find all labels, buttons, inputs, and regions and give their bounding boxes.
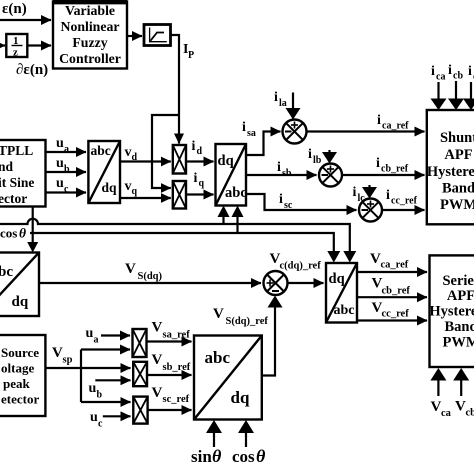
svg-text:d: d [197, 146, 203, 157]
svg-text:Source: Source [1, 345, 39, 360]
summing junction 1 [283, 120, 307, 144]
node ilc label [353, 185, 366, 204]
node ub label [56, 156, 70, 175]
wire Vsc_ref [148, 409, 192, 411]
wire iq [186, 193, 214, 195]
svg-text:i: i [431, 64, 435, 79]
svg-text:V: V [455, 399, 466, 415]
svg-text:∂ε(n): ∂ε(n) [16, 62, 48, 78]
node ica_ref label [377, 113, 409, 132]
svg-text:V: V [431, 399, 442, 415]
svg-text:cb_ref: cb_ref [382, 286, 411, 297]
svg-text:i: i [242, 120, 246, 135]
svg-text:Controller: Controller [59, 51, 121, 66]
wire cos input arrow to block4 [238, 420, 254, 447]
svg-text:c: c [98, 419, 103, 430]
svg-text:i: i [194, 171, 198, 186]
svg-text:Nonlinear: Nonlinear [60, 19, 119, 34]
node cos theta label [232, 446, 266, 466]
wire isc [246, 194, 357, 210]
svg-text:i: i [192, 139, 196, 154]
block PLL and unit sine detector (cropped at left) [0, 140, 46, 207]
svg-text:abc: abc [225, 185, 247, 201]
svg-text:P: P [188, 50, 194, 61]
node Vcb_ref label [372, 276, 411, 297]
svg-text:i: i [376, 156, 380, 171]
wire sin input to block2 [218, 206, 230, 225]
block multiplier a [133, 329, 147, 357]
node vq label [125, 179, 138, 197]
node Vcc_ref label [372, 300, 410, 320]
svg-text:q: q [199, 178, 205, 189]
node isa label [242, 120, 256, 139]
svg-text:cb_ref: cb_ref [381, 164, 409, 175]
node ila label [274, 90, 287, 109]
svg-text:u: u [56, 176, 64, 191]
wire ila input arrow [286, 93, 301, 120]
svg-text:ca_ref: ca_ref [382, 121, 409, 132]
node VSdq_ref label [213, 306, 268, 327]
wire PLL down to abc-dq 3 [27, 207, 38, 253]
node iq label [194, 171, 205, 189]
svg-text:ε(n): ε(n) [2, 1, 27, 17]
node Vca label [431, 399, 452, 419]
wire cos input to block2 [232, 206, 244, 234]
wire icc input arrow [463, 82, 474, 110]
node ua label (bottom) [86, 326, 99, 346]
svg-text:θ: θ [212, 446, 222, 466]
block multiplier b [133, 362, 147, 386]
wire isb [246, 174, 317, 176]
summing junction 4 [264, 271, 288, 295]
wire ica input arrow [431, 82, 447, 110]
wire Vsa_ref [147, 340, 192, 342]
node icc label (cropped) [468, 64, 474, 83]
node Vsp label [52, 345, 73, 366]
block variable nonlinear fuzzy controller [53, 2, 127, 69]
svg-text:Series: Series [442, 273, 474, 289]
svg-text:dq: dq [231, 388, 250, 407]
wire vd to multiplier [120, 160, 171, 162]
svg-text:cos: cos [0, 226, 17, 241]
block dq-abc transform 2 [216, 144, 248, 206]
node icc_ref label [386, 188, 418, 207]
wire controller to limiter [127, 35, 142, 37]
svg-text:sb_ref: sb_ref [163, 362, 191, 373]
svg-text:c(dq)_ref: c(dq)_ref [280, 261, 322, 272]
svg-text:etector: etector [1, 392, 39, 407]
svg-text:dq: dq [12, 294, 29, 310]
svg-text:u: u [56, 156, 64, 171]
svg-text:i: i [279, 192, 283, 207]
wire vq to multiplier [120, 197, 171, 199]
wire 1/z input [0, 44, 5, 46]
wire sin bus arrow into series dq-abc [343, 251, 356, 263]
wire ua to multiplier a [101, 334, 130, 336]
svg-text:PWM: PWM [440, 197, 474, 213]
svg-text:abc: abc [334, 303, 355, 318]
svg-text:Hysteresis: Hysteresis [429, 304, 474, 320]
wire icc_ref [382, 209, 425, 211]
svg-text:dq: dq [329, 271, 345, 287]
block multiplier d [173, 145, 186, 174]
svg-text:i: i [377, 113, 381, 128]
svg-text:lb: lb [313, 155, 322, 166]
wire cos bus arrow into series dq-abc [327, 251, 340, 263]
wire ilc input arrow [362, 185, 377, 199]
svg-text:a: a [64, 144, 69, 155]
svg-text:q: q [132, 186, 138, 197]
svg-text:i: i [468, 64, 472, 79]
svg-text:V: V [152, 320, 163, 336]
svg-text:oltage: oltage [1, 361, 34, 376]
svg-text:APF: APF [444, 147, 472, 163]
node ua label [56, 136, 69, 155]
svg-text:ca: ca [436, 72, 445, 83]
block abc-dq transform 3 (cropped at left) [0, 253, 39, 317]
svg-text:sp: sp [63, 355, 73, 366]
svg-text:Fuzzy: Fuzzy [72, 35, 107, 50]
node VSdq label [125, 261, 163, 282]
wire Vcc_ref [357, 319, 427, 321]
block dq-abc transform 5 [326, 263, 357, 323]
wire Vcdq_ref to dq-abc 5 [288, 282, 324, 284]
svg-text:dq: dq [218, 153, 234, 169]
node cos label [0, 226, 26, 241]
block series APF hysteresis band PWM [429, 255, 474, 367]
wire limiter output Ip down to multiplier [171, 35, 180, 144]
node Vsc_ref label [152, 385, 190, 405]
svg-text:z: z [13, 47, 18, 59]
node icb_ref label [376, 156, 409, 175]
node isc label [279, 192, 293, 211]
wire uc [46, 191, 87, 193]
summing junction 3 [359, 199, 382, 222]
wire icb input arrow [448, 81, 464, 110]
wire sin input arrow to block4 [206, 420, 222, 447]
wire ua [46, 151, 87, 153]
svg-text:cc_ref: cc_ref [382, 309, 410, 320]
wire isa [246, 132, 281, 156]
node icb label [448, 63, 463, 82]
svg-text:Shunt: Shunt [440, 130, 474, 146]
svg-text:u: u [89, 381, 97, 396]
svg-text:peak: peak [3, 376, 31, 391]
svg-text:V: V [213, 306, 224, 322]
node uc label (bottom) [90, 410, 103, 430]
node Vcdq_ref label [270, 251, 322, 272]
wire cos bus [30, 233, 334, 251]
wire id [186, 160, 214, 162]
wire 1/z to fuzzy controller [27, 44, 51, 46]
svg-text:ector: ector [0, 191, 27, 206]
svg-text:i: i [308, 147, 312, 162]
svg-text:v: v [125, 179, 132, 194]
node Vcb label (cropped) [455, 399, 474, 419]
svg-text:sin: sin [191, 447, 212, 466]
summing junction 2 [319, 164, 342, 187]
block multiplier q [173, 181, 186, 209]
svg-text:i: i [277, 160, 281, 175]
node Vsa_ref label [152, 320, 191, 341]
svg-text:la: la [279, 98, 287, 109]
svg-text:v: v [125, 145, 132, 160]
wire ub [46, 171, 87, 173]
svg-text:S(dq)_ref: S(dq)_ref [226, 316, 269, 327]
wire Vcb_ref [357, 296, 427, 298]
svg-text:i: i [353, 185, 357, 200]
svg-text:APF: APF [447, 288, 474, 304]
node ica label [431, 64, 445, 83]
svg-text:cb: cb [466, 408, 474, 419]
svg-text:PWM: PWM [442, 335, 474, 351]
svg-text:Variable: Variable [65, 3, 115, 18]
block abc-dq transform 1 [88, 141, 120, 203]
wire ilb input arrow [322, 150, 337, 164]
node ilb label [308, 147, 322, 166]
svg-text:sb: sb [282, 168, 292, 179]
svg-text:θ: θ [19, 226, 26, 241]
wire Vsb_ref [147, 374, 192, 376]
node id label [192, 139, 203, 157]
svg-text:V: V [52, 345, 63, 361]
svg-text:cos: cos [232, 447, 255, 466]
svg-text:i: i [274, 90, 278, 105]
svg-text:sa: sa [247, 128, 256, 139]
wire eps(n) input [0, 19, 51, 21]
block abc-dq transform 4 [194, 336, 262, 420]
svg-text:nd: nd [0, 159, 14, 174]
svg-text:it Sine: it Sine [0, 175, 34, 190]
svg-text:cc_ref: cc_ref [391, 196, 418, 207]
svg-text:dq: dq [102, 180, 118, 195]
svg-text:i: i [448, 63, 452, 78]
wire VSdq to summing junction 4 [39, 282, 261, 284]
block source voltage peak detector (cropped at left) [0, 335, 45, 416]
svg-text:Band: Band [444, 319, 474, 335]
block shunt APF hysteresis band PWM [427, 110, 474, 224]
node vd label [125, 145, 138, 163]
node sin theta label [191, 446, 222, 466]
svg-text:sc_ref: sc_ref [163, 394, 190, 405]
node ub label (bottom) [89, 381, 103, 401]
block multiplier c [133, 397, 147, 424]
node uc label [56, 176, 69, 195]
svg-text:b: b [64, 164, 70, 175]
svg-text:abc: abc [91, 143, 111, 158]
wire sin bus [0, 219, 350, 251]
node isb label [277, 160, 292, 179]
wire uc to multiplier c [103, 415, 131, 417]
wire Vsp to multiplier b [45, 367, 130, 369]
svg-text:abc: abc [205, 348, 231, 367]
svg-text:Hysteresis: Hysteresis [427, 164, 474, 180]
wire VSdq_ref from abc-dq 4 up to summing junction 4 [262, 296, 283, 376]
svg-text:θ: θ [256, 446, 266, 466]
wire Vsp branch vertical [80, 350, 82, 403]
wire icb_ref [342, 174, 425, 176]
svg-text:ca: ca [441, 408, 452, 419]
wire ub to multiplier b [95, 379, 130, 381]
wire ica_ref [307, 130, 425, 132]
wire Vsp branch to multiplier a [81, 348, 130, 350]
wire Vca_ref [357, 271, 427, 273]
svg-text:V: V [152, 352, 163, 368]
block limiter (saturation) [144, 25, 171, 46]
wire Vsp branch to multiplier c [81, 401, 131, 403]
svg-text:u: u [90, 410, 98, 425]
wire Vca input arrow [430, 368, 446, 396]
svg-text:u: u [86, 326, 94, 341]
svg-text:abc: abc [0, 264, 13, 280]
node Vca_ref label [370, 251, 409, 271]
svg-text:b: b [97, 390, 103, 401]
svg-text:V: V [370, 251, 381, 267]
svg-text:Band: Band [442, 181, 474, 197]
wire Ip branch to q multiplier [152, 115, 179, 188]
svg-text:V: V [125, 261, 136, 277]
svg-text:TPLL: TPLL [0, 143, 33, 158]
svg-text:cb: cb [453, 71, 463, 82]
block 1/z delay [6, 34, 27, 59]
node Ip label [183, 42, 194, 61]
svg-text:S(dq): S(dq) [138, 271, 163, 282]
svg-text:a: a [94, 335, 99, 346]
svg-text:i: i [386, 188, 390, 203]
svg-text:sa_ref: sa_ref [163, 330, 191, 341]
svg-text:ca_ref: ca_ref [381, 260, 409, 271]
node Vsb_ref label [152, 352, 191, 373]
svg-text:V: V [152, 385, 163, 401]
svg-text:u: u [56, 136, 64, 151]
wire Vcb input arrow [453, 368, 469, 396]
